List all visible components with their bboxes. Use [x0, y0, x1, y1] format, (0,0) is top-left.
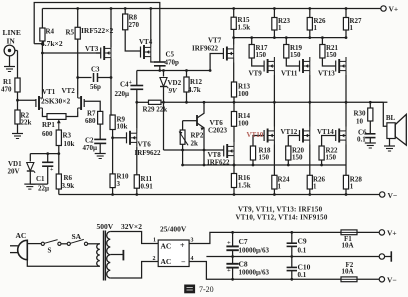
svg-text:C8: C8 — [239, 260, 248, 269]
svg-text:R30: R30 — [354, 110, 367, 118]
svg-text:AC: AC — [16, 231, 27, 240]
svg-text:10000µ/63: 10000µ/63 — [239, 269, 270, 277]
svg-text:1: 1 — [314, 24, 318, 32]
svg-text:270: 270 — [129, 21, 140, 29]
svg-text:1: 1 — [278, 24, 282, 32]
svg-text:150: 150 — [256, 51, 267, 59]
svg-text:10k: 10k — [117, 123, 128, 131]
svg-text:470µ: 470µ — [83, 144, 98, 152]
svg-text:10: 10 — [356, 118, 364, 126]
svg-text:20V: 20V — [8, 168, 20, 176]
svg-text:+: + — [50, 167, 54, 173]
svg-text:V+: V+ — [389, 5, 399, 14]
svg-text:25/400V: 25/400V — [160, 225, 187, 234]
svg-text:10000µ/63: 10000µ/63 — [239, 247, 270, 255]
svg-text:VT3: VT3 — [85, 45, 99, 53]
svg-text:AC: AC — [161, 257, 172, 266]
svg-text:VT12: VT12 — [281, 128, 298, 136]
svg-text:IRF522×2: IRF522×2 — [81, 26, 113, 35]
svg-text:+: + — [129, 80, 133, 86]
svg-text:7-20: 7-20 — [199, 285, 214, 294]
svg-text:22k: 22k — [21, 119, 32, 127]
svg-text:VT10, VT12, VT14: INF9150: VT10, VT12, VT14: INF9150 — [236, 214, 328, 222]
svg-text:VT1: VT1 — [42, 88, 56, 96]
svg-text:150: 150 — [290, 51, 301, 59]
svg-text:C2023: C2023 — [208, 127, 228, 135]
svg-text:1.5k: 1.5k — [238, 182, 251, 190]
svg-text:0.91: 0.91 — [141, 183, 154, 191]
svg-text:150: 150 — [292, 154, 303, 162]
svg-text:150: 150 — [326, 51, 337, 59]
svg-text:VT9: VT9 — [249, 70, 263, 78]
svg-text:VT14: VT14 — [317, 128, 334, 136]
svg-text:10k: 10k — [64, 140, 75, 148]
svg-text:AC: AC — [161, 242, 172, 251]
svg-text:BL: BL — [386, 114, 396, 122]
svg-text:1: 1 — [278, 183, 282, 191]
svg-text:1: 1 — [350, 183, 354, 191]
svg-text:0.1: 0.1 — [357, 136, 366, 144]
svg-text:0.1: 0.1 — [298, 247, 307, 255]
svg-text:4.7k×2: 4.7k×2 — [41, 39, 63, 48]
svg-text:4.7k: 4.7k — [188, 86, 201, 94]
svg-text:S: S — [48, 247, 52, 255]
svg-text:V−: V− — [388, 191, 398, 200]
svg-text:150: 150 — [326, 154, 337, 162]
svg-text:56p: 56p — [90, 83, 101, 91]
svg-text:+: + — [227, 267, 231, 274]
svg-text:9V: 9V — [169, 87, 179, 95]
svg-text:R5: R5 — [66, 29, 75, 37]
svg-text:3: 3 — [117, 180, 121, 188]
svg-text:2SK30×2: 2SK30×2 — [41, 97, 71, 106]
svg-text:470p: 470p — [165, 59, 180, 67]
svg-text:1.5k: 1.5k — [238, 24, 251, 32]
svg-text:V+: V+ — [387, 228, 397, 237]
svg-text:VT11: VT11 — [281, 70, 298, 78]
svg-text:3.9k: 3.9k — [62, 182, 75, 190]
svg-text:IRF9622: IRF9622 — [192, 45, 219, 53]
svg-text:VT10: VT10 — [247, 131, 264, 139]
svg-text:+: + — [180, 241, 185, 250]
svg-text:1: 1 — [313, 183, 317, 191]
svg-text:10A: 10A — [342, 242, 354, 250]
svg-text:IRF9622: IRF9622 — [135, 149, 162, 157]
svg-text:+: + — [227, 240, 231, 247]
svg-text:C3: C3 — [91, 66, 100, 74]
svg-text:R4: R4 — [46, 28, 55, 36]
svg-text:100: 100 — [238, 90, 249, 98]
svg-text:10A: 10A — [342, 268, 354, 276]
svg-text:32V×2: 32V×2 — [121, 222, 142, 231]
svg-text:1: 1 — [153, 238, 156, 244]
svg-text:R6: R6 — [64, 174, 73, 182]
svg-text:VT13: VT13 — [318, 70, 335, 78]
svg-text:IN: IN — [7, 37, 16, 46]
svg-text:C5: C5 — [166, 51, 175, 59]
svg-text:150: 150 — [259, 154, 270, 162]
svg-text:1: 1 — [350, 24, 354, 32]
svg-text:SA: SA — [72, 232, 82, 241]
svg-text:R12: R12 — [190, 78, 203, 86]
svg-text:C9: C9 — [298, 237, 307, 246]
svg-text:2k: 2k — [191, 140, 199, 148]
svg-text:220µ: 220µ — [115, 90, 130, 98]
svg-text:V−: V− — [387, 275, 397, 284]
svg-text:0.1: 0.1 — [298, 271, 307, 279]
svg-text:3: 3 — [191, 238, 194, 244]
svg-text:VT7: VT7 — [208, 37, 222, 45]
svg-text:22µ: 22µ — [38, 185, 49, 193]
svg-text:VT6: VT6 — [138, 141, 152, 149]
svg-text:470: 470 — [1, 86, 12, 94]
svg-text:VT2: VT2 — [62, 87, 76, 95]
svg-text:500V: 500V — [97, 222, 114, 231]
svg-text:RP1: RP1 — [42, 121, 55, 129]
svg-text:100: 100 — [238, 120, 249, 128]
svg-text:600: 600 — [42, 130, 53, 138]
svg-text:VT9, VT11, VT13: IRF150: VT9, VT11, VT13: IRF150 — [238, 206, 323, 214]
svg-text:−: − — [181, 258, 186, 267]
svg-text:VD2: VD2 — [168, 79, 182, 87]
svg-text:RP2: RP2 — [191, 132, 204, 140]
svg-text:2: 2 — [153, 256, 156, 262]
svg-text:C7: C7 — [239, 237, 248, 246]
svg-text:R29 22k: R29 22k — [143, 106, 168, 114]
svg-text:C1: C1 — [36, 175, 45, 183]
svg-text:680: 680 — [85, 117, 96, 125]
svg-text:R3: R3 — [63, 132, 72, 140]
